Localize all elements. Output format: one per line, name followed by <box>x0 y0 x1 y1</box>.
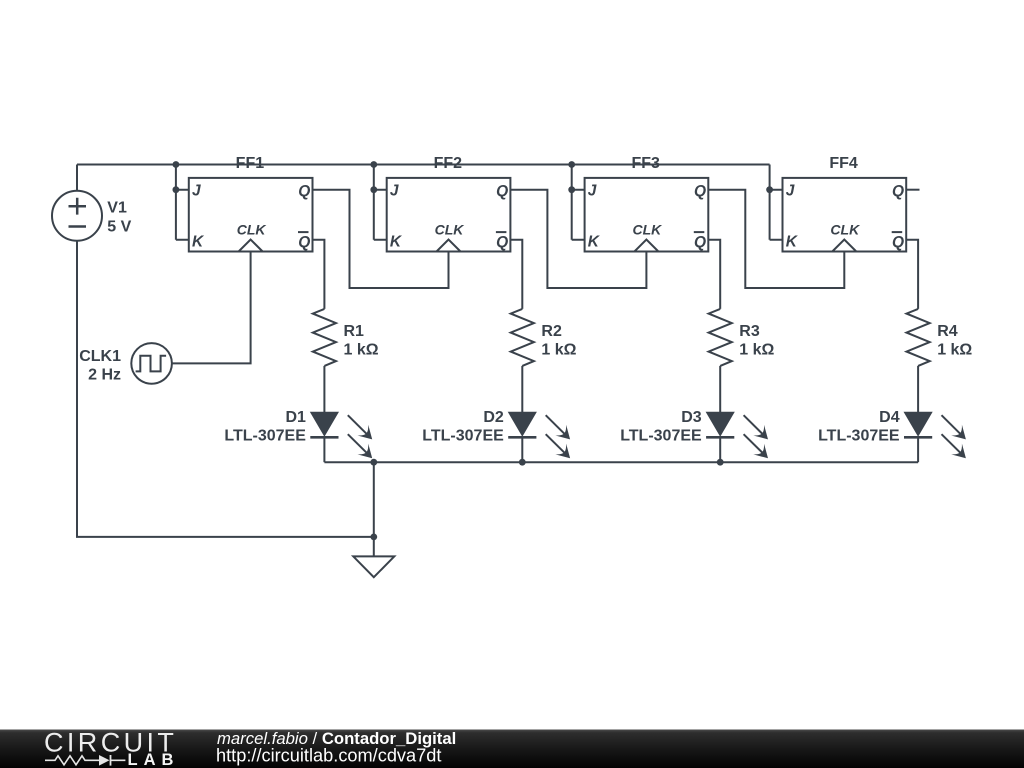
svg-text:Q: Q <box>892 183 904 200</box>
wire FF1 Q output to FF2 CLK input <box>313 190 449 288</box>
CircuitLab logo <box>44 727 179 768</box>
junction node on 5V rail at FF3 feed <box>568 161 575 168</box>
flip-flop FF2 (JK) <box>387 155 511 252</box>
svg-text:http://circuitlab.com/cdva7dt: http://circuitlab.com/cdva7dt <box>216 746 441 766</box>
flip-flop FF3 (JK) <box>585 155 709 252</box>
voltage source V1 (5 V) <box>52 191 132 241</box>
resistor R1 (1 kOhm) <box>313 309 379 366</box>
LED D1 (LTL-307EE) <box>224 409 377 464</box>
svg-text:CLK: CLK <box>633 222 663 238</box>
svg-text:D3: D3 <box>681 409 702 426</box>
resistor R3 (1 kOhm) <box>709 309 775 366</box>
wire 5V rail tap down to FF3 J and K inputs <box>572 165 585 240</box>
junction node on 5V rail at FF1 feed <box>173 161 180 168</box>
svg-text:LAB: LAB <box>128 751 180 768</box>
svg-text:D2: D2 <box>483 409 504 426</box>
svg-text:K: K <box>390 233 403 250</box>
svg-text:K: K <box>588 233 601 250</box>
resistor R4 (1 kOhm) <box>907 309 973 366</box>
flip-flop FF4 (JK) <box>783 155 907 252</box>
junction node at FF3 J input <box>568 186 575 193</box>
junction node return rail at D3 <box>717 459 724 466</box>
LED D3 (LTL-307EE) <box>620 409 773 464</box>
svg-text:FF4: FF4 <box>829 155 858 172</box>
svg-text:FF2: FF2 <box>434 155 463 172</box>
junction node return rail at ground drop <box>370 459 377 466</box>
wire V1 negative terminal to ground junction <box>77 241 374 537</box>
svg-text:J: J <box>390 183 399 200</box>
wire 5V rail tap down to FF2 J and K inputs <box>374 165 387 240</box>
junction node at FF2 J input <box>370 186 377 193</box>
svg-text:LTL-307EE: LTL-307EE <box>818 427 900 444</box>
wire R1 to D1 anode <box>323 366 325 413</box>
ground symbol <box>353 556 394 577</box>
svg-text:Q: Q <box>298 234 310 251</box>
svg-text:R3: R3 <box>739 323 760 340</box>
svg-text:Q: Q <box>496 183 508 200</box>
junction node V1 return at ground <box>370 534 377 541</box>
wire D1 cathode to return rail <box>323 437 325 462</box>
svg-text:1 kΩ: 1 kΩ <box>937 342 972 359</box>
LED D4 (LTL-307EE) <box>818 409 971 464</box>
wire FF2 Q output to FF3 CLK input <box>510 190 646 288</box>
svg-text:K: K <box>786 233 799 250</box>
wire FF2 Q-bar output to R2 <box>510 240 522 309</box>
wire D3 cathode to return rail <box>719 437 721 462</box>
svg-text:J: J <box>786 183 795 200</box>
svg-text:Q: Q <box>496 234 508 251</box>
svg-text:R1: R1 <box>344 323 365 340</box>
LED D2 (LTL-307EE) <box>422 409 575 464</box>
wire 5V rail corner down to FF4 J and K inputs <box>770 165 783 240</box>
footer bar <box>0 730 1024 768</box>
wire 5V rail from V1 to FF4 feed <box>77 164 770 166</box>
svg-text:Q: Q <box>694 234 706 251</box>
svg-text:V1: V1 <box>107 199 127 216</box>
svg-text:2 Hz: 2 Hz <box>88 367 121 384</box>
wire V1 positive terminal to 5V rail <box>76 165 78 191</box>
junction node at FF4 J input <box>766 186 773 193</box>
svg-text:Q: Q <box>694 183 706 200</box>
svg-text:Q: Q <box>892 234 904 251</box>
svg-text:K: K <box>192 233 205 250</box>
wire FF4 Q output stub (unconnected) <box>906 189 919 191</box>
svg-text:1 kΩ: 1 kΩ <box>739 342 774 359</box>
svg-text:CLK: CLK <box>435 222 465 238</box>
svg-text:1 kΩ: 1 kΩ <box>344 342 379 359</box>
svg-text:D1: D1 <box>285 409 306 426</box>
wire FF3 Q-bar output to R3 <box>708 240 720 309</box>
svg-text:5 V: 5 V <box>107 219 131 236</box>
svg-text:LTL-307EE: LTL-307EE <box>620 427 702 444</box>
svg-text:CLK: CLK <box>830 222 860 238</box>
svg-text:J: J <box>588 183 597 200</box>
svg-text:Q: Q <box>298 183 310 200</box>
wire R2 to D2 anode <box>521 366 523 413</box>
svg-text:1 kΩ: 1 kΩ <box>541 342 576 359</box>
wire CLK1 output to FF1 CLK input <box>172 252 251 364</box>
svg-text:R4: R4 <box>937 323 958 340</box>
svg-text:LTL-307EE: LTL-307EE <box>224 427 306 444</box>
svg-text:LTL-307EE: LTL-307EE <box>422 427 504 444</box>
svg-text:J: J <box>192 183 201 200</box>
wire D2 cathode to return rail <box>521 437 523 462</box>
wire FF4 Q-bar output to R4 <box>906 240 918 309</box>
svg-text:FF1: FF1 <box>236 155 265 172</box>
wire return rail down to ground <box>373 462 375 556</box>
wire D4 cathode to return rail <box>917 437 919 462</box>
wire LED return rail <box>324 461 918 463</box>
wire 5V rail tap down to FF1 J and K inputs <box>176 165 189 240</box>
flip-flop FF1 (JK) <box>189 155 313 252</box>
svg-text:D4: D4 <box>879 409 900 426</box>
resistor R2 (1 kOhm) <box>511 309 577 366</box>
svg-text:CLK1: CLK1 <box>79 348 121 365</box>
wire FF3 Q output to FF4 CLK input <box>708 190 844 288</box>
clock source CLK1 (2 Hz) <box>79 343 172 384</box>
junction node at FF1 J input <box>173 186 180 193</box>
svg-text:CLK: CLK <box>237 222 267 238</box>
svg-text:FF3: FF3 <box>631 155 660 172</box>
junction node return rail at D2 <box>519 459 526 466</box>
wire R3 to D3 anode <box>719 366 721 413</box>
svg-text:R2: R2 <box>541 323 562 340</box>
wire FF1 Q-bar output to R1 <box>313 240 325 309</box>
junction node on 5V rail at FF2 feed <box>370 161 377 168</box>
wire R4 to D4 anode <box>917 366 919 413</box>
